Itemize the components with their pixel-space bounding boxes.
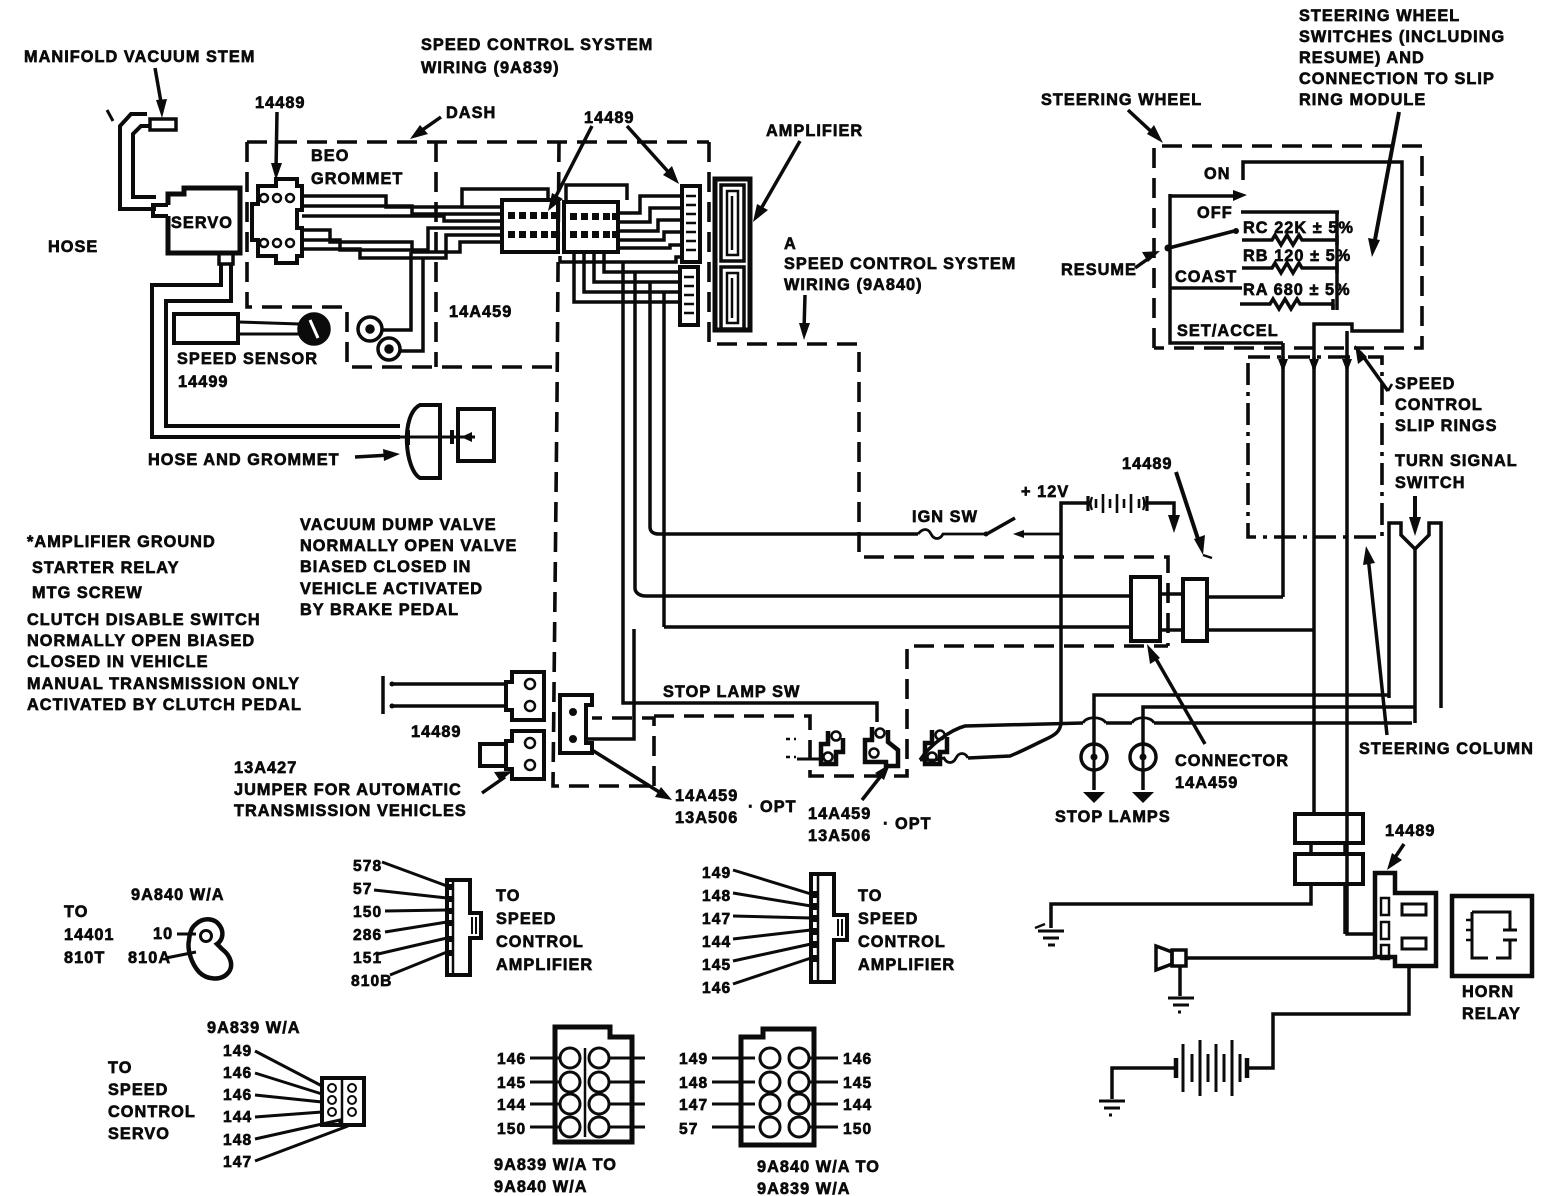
- svg-text:14489: 14489: [584, 109, 635, 127]
- servo vacuum port: [219, 253, 233, 264]
- svg-text:HORN: HORN: [1462, 983, 1514, 1001]
- svg-text:14A459: 14A459: [1175, 774, 1238, 792]
- bus wire y597 right: [1160, 592, 1183, 596]
- fuse to arrow: [1143, 503, 1180, 533]
- jumper loop: [480, 744, 506, 766]
- svg-text:ACTIVATED BY CLUTCH PEDAL: ACTIVATED BY CLUTCH PEDAL: [27, 696, 302, 714]
- stop lamp sw wire: [623, 700, 877, 722]
- opt small dashes: [786, 739, 796, 757]
- svg-text:57: 57: [353, 881, 372, 898]
- mid connector C: [560, 695, 592, 753]
- hose lower run: [152, 264, 400, 437]
- svg-text:10: 10: [153, 925, 173, 943]
- svg-text:9A839 W/A: 9A839 W/A: [207, 1019, 301, 1037]
- resistor RA: [1240, 299, 1333, 309]
- bus wire y594: [646, 594, 1131, 598]
- arrow dash label: [410, 117, 441, 139]
- wire B continue to stack: [1312, 628, 1316, 814]
- svg-text:TO: TO: [108, 1059, 132, 1077]
- svg-text:CONNECTOR: CONNECTOR: [1175, 752, 1289, 770]
- svg-text:145: 145: [843, 1075, 872, 1092]
- svg-text:CONTROL: CONTROL: [1395, 396, 1483, 414]
- svg-text:810T: 810T: [64, 949, 105, 967]
- 9A839 amp connector: [447, 880, 481, 975]
- svg-text:RING MODULE: RING MODULE: [1299, 91, 1426, 109]
- svg-text:AMPLIFIER: AMPLIFIER: [496, 956, 593, 974]
- squiggle to stop lamp sw: [920, 754, 968, 763]
- svg-text:SPEED: SPEED: [496, 910, 556, 928]
- horn conn pins: [1381, 898, 1389, 915]
- wires inline B to amp strip1: [618, 196, 682, 213]
- speed sensor plug: [299, 314, 329, 344]
- svg-text:STARTER RELAY: STARTER RELAY: [32, 559, 180, 577]
- stop lamps top wire: [1094, 695, 1389, 745]
- svg-text:CONNECTION TO SLIP: CONNECTION TO SLIP: [1299, 70, 1495, 88]
- battery feed wire: [1248, 966, 1409, 1068]
- svg-text:MANUAL TRANSMISSION ONLY: MANUAL TRANSMISSION ONLY: [27, 675, 300, 693]
- svg-text:STEERING COLUMN: STEERING COLUMN: [1359, 740, 1534, 758]
- amplifier slot2: [721, 267, 744, 329]
- ign sw feed wire: [659, 532, 918, 536]
- arrow manifold vacuum stem: [155, 68, 167, 118]
- bus wire y627: [664, 625, 1131, 629]
- svg-text:SPEED CONTROL SYSTEM: SPEED CONTROL SYSTEM: [421, 36, 653, 54]
- opt box 1: [592, 718, 654, 786]
- stop lamp 1: [1081, 744, 1107, 770]
- svg-text:*AMPLIFIER GROUND: *AMPLIFIER GROUND: [27, 533, 216, 551]
- arrow hose and grommet: [355, 449, 400, 461]
- dash panel boundary top: [247, 140, 709, 144]
- coast contact line: [1170, 286, 1242, 290]
- svg-text:CONTROL: CONTROL: [108, 1103, 196, 1121]
- set/accel stub: [1331, 304, 1335, 310]
- svg-text:146: 146: [702, 980, 731, 997]
- arrow steering wheel label: [1128, 110, 1163, 143]
- svg-text:14489: 14489: [1122, 455, 1173, 473]
- wire C down: [1345, 331, 1349, 537]
- svg-text:146: 146: [843, 1051, 872, 1068]
- steering wheel dash box: [1154, 146, 1422, 348]
- svg-text:SPEED: SPEED: [858, 910, 918, 928]
- ground sym battery: [1099, 1099, 1125, 1115]
- svg-text:149: 149: [679, 1051, 708, 1068]
- svg-text:STOP LAMP SW: STOP LAMP SW: [663, 683, 800, 701]
- svg-text:COAST: COAST: [1175, 268, 1237, 286]
- svg-text:AMPLIFIER: AMPLIFIER: [766, 122, 863, 140]
- svg-text:150: 150: [353, 904, 382, 921]
- resistor RB: [1242, 263, 1337, 273]
- svg-text:TURN SIGNAL: TURN SIGNAL: [1395, 452, 1518, 470]
- turn signal center post: [1413, 549, 1417, 723]
- svg-text:14A459: 14A459: [675, 787, 738, 805]
- svg-text:146: 146: [223, 1065, 252, 1082]
- svg-text:CONTROL: CONTROL: [858, 933, 946, 951]
- battery: [1176, 1040, 1247, 1096]
- svg-text:14A459: 14A459: [449, 303, 512, 321]
- stop lamp 2 wire: [1143, 707, 1415, 745]
- svg-text:149: 149: [702, 865, 731, 882]
- ign sw blade: [984, 518, 1016, 537]
- svg-text:STEERING WHEEL: STEERING WHEEL: [1041, 91, 1202, 109]
- inline connector 14A459 half B: [564, 202, 618, 252]
- svg-text:BY BRAKE PEDAL: BY BRAKE PEDAL: [300, 601, 459, 619]
- svg-text:14489: 14489: [411, 723, 462, 741]
- svg-text:VEHICLE ACTIVATED: VEHICLE ACTIVATED: [300, 580, 483, 598]
- speed sensor body: [174, 314, 238, 343]
- wire bundle BEO to inline connector: [302, 196, 502, 207]
- svg-text:14A459: 14A459: [808, 805, 871, 823]
- ON contact: [1170, 190, 1247, 201]
- 9A840 grommet pigtail: [177, 933, 196, 936]
- svg-text:9A840 W/A: 9A840 W/A: [131, 886, 225, 904]
- dash boundary lower vertical: [553, 142, 658, 786]
- svg-text:14489: 14489: [255, 94, 306, 112]
- hop over lamp1: [1083, 718, 1106, 723]
- svg-text:147: 147: [702, 911, 731, 928]
- svg-text:SWITCHES (INCLUDING: SWITCHES (INCLUDING: [1299, 28, 1505, 46]
- svg-text:STOP LAMPS: STOP LAMPS: [1055, 808, 1171, 826]
- vacuum dump valve plunger: [400, 436, 440, 439]
- 9A839 amp connector fan lines: [382, 862, 447, 886]
- svg-text:14489: 14489: [1385, 822, 1436, 840]
- svg-text:IGN SW: IGN SW: [912, 508, 978, 526]
- svg-text:HOSE AND GROMMET: HOSE AND GROMMET: [148, 451, 340, 469]
- grommet teardrop: [188, 919, 231, 978]
- arrow connector 14A459 label: [1147, 644, 1205, 744]
- stop lamp switch sym 2: [865, 727, 898, 766]
- stop lamp 1 lead: [1083, 770, 1105, 803]
- svg-text:CONTROL: CONTROL: [496, 933, 584, 951]
- svg-text:9A840 W/A TO: 9A840 W/A TO: [757, 1158, 880, 1176]
- svg-text:NORMALLY OPEN VALVE: NORMALLY OPEN VALVE: [300, 537, 517, 555]
- arrow slip rings label: [1355, 345, 1392, 391]
- wires inline B to amp strip2: [604, 252, 680, 272]
- svg-text:13A506: 13A506: [808, 827, 871, 845]
- switch ladder top bus: [1243, 162, 1402, 343]
- 9A840 amp connector: [811, 874, 847, 982]
- arrow opt1 label: [592, 750, 672, 800]
- svg-text:14401: 14401: [64, 926, 115, 944]
- svg-text:9A839 W/A TO: 9A839 W/A TO: [494, 1156, 617, 1174]
- svg-text:BIASED CLOSED IN: BIASED CLOSED IN: [300, 558, 472, 576]
- arrow 14489 to connector A: [548, 126, 592, 211]
- wire bundle top frame: [462, 189, 548, 207]
- svg-text:144: 144: [223, 1109, 252, 1126]
- svg-text:JUMPER FOR AUTOMATIC: JUMPER FOR AUTOMATIC: [234, 781, 462, 799]
- servo connector: [322, 1078, 364, 1125]
- svg-text:14499: 14499: [178, 373, 229, 391]
- svg-text:SPEED: SPEED: [108, 1081, 168, 1099]
- svg-text:RESUME) AND: RESUME) AND: [1299, 49, 1425, 67]
- mid to right conn leads: [712, 1058, 755, 1127]
- svg-text:ON: ON: [1204, 165, 1231, 183]
- amp connector strip2: [680, 267, 698, 325]
- left conn label leads: [530, 1058, 560, 1127]
- svg-text:144: 144: [497, 1097, 526, 1114]
- svg-text:STEERING WHEEL: STEERING WHEEL: [1299, 7, 1460, 25]
- slip rings dash box: [1248, 357, 1382, 537]
- column stack connector 1: [1295, 814, 1363, 843]
- svg-text:VACUUM DUMP VALVE: VACUUM DUMP VALVE: [300, 516, 497, 534]
- BEO pins row1: [260, 194, 268, 202]
- horn relay box: [1452, 896, 1532, 976]
- svg-text:A: A: [784, 235, 797, 253]
- arrow resume label: [1135, 251, 1160, 268]
- svg-text:MANIFOLD VACUUM STEM: MANIFOLD VACUUM STEM: [24, 48, 255, 66]
- arrow steering column label: [1363, 546, 1387, 735]
- hose and grommet shape: [407, 405, 440, 478]
- svg-text:WIRING (9A839): WIRING (9A839): [421, 59, 560, 77]
- clutch switch connector A: [506, 672, 544, 720]
- wire C continue in column: [1347, 537, 1375, 934]
- svg-text:TO: TO: [858, 887, 882, 905]
- wire drops from bundle to bus: [621, 262, 625, 700]
- mating connector left: [555, 1027, 632, 1142]
- svg-text:149: 149: [223, 1043, 252, 1060]
- BEO grommet connector: [252, 179, 302, 263]
- stack to horn conn wire: [1343, 884, 1347, 934]
- svg-text:SET/ACCEL: SET/ACCEL: [1177, 322, 1279, 340]
- inline connector 14A459 half A: [502, 200, 558, 252]
- svg-text:150: 150: [497, 1121, 526, 1138]
- inline connector pins A: [508, 212, 557, 238]
- stop lamp switch sym 1: [821, 731, 843, 764]
- horn symbol: [1156, 946, 1172, 970]
- wire from C: [586, 629, 634, 739]
- ladder left rail: [1170, 194, 1283, 343]
- column stack connector 2: [1295, 854, 1363, 884]
- svg-text:146: 146: [223, 1087, 252, 1104]
- svg-text:BEO: BEO: [311, 147, 349, 165]
- svg-text:RELAY: RELAY: [1462, 1005, 1521, 1023]
- svg-text:286: 286: [353, 927, 382, 944]
- arrow jumper label: [482, 771, 513, 793]
- svg-text:TO: TO: [64, 903, 88, 921]
- horn wire: [1186, 956, 1375, 960]
- 12V riser: [1061, 503, 1091, 534]
- arrow 14489 fuse label: [1176, 472, 1212, 558]
- svg-text:CLOSED IN VEHICLE: CLOSED IN VEHICLE: [27, 653, 209, 671]
- clutch terminal bar: [381, 676, 385, 714]
- speed sensor cable: [238, 322, 300, 324]
- BEO pins row2: [260, 239, 268, 247]
- arrow steering switches label: [1368, 112, 1399, 257]
- ladder right rail: [1335, 212, 1339, 310]
- svg-text:13A427: 13A427: [234, 759, 297, 777]
- stop lamp 2: [1130, 744, 1156, 770]
- svg-text:145: 145: [702, 957, 731, 974]
- svg-text:148: 148: [702, 888, 731, 905]
- svg-text:13A506: 13A506: [675, 809, 738, 827]
- left conn right leads: [609, 1058, 645, 1127]
- inline connector pair upper: [1131, 577, 1160, 641]
- inline connector pair lower: [1183, 579, 1207, 641]
- manifold vacuum stem: [150, 119, 176, 130]
- horn ground drop: [1178, 966, 1182, 996]
- ring terminal 1: [358, 317, 382, 341]
- dash panel boundary left: [247, 142, 558, 367]
- svg-text:147: 147: [223, 1154, 252, 1171]
- servo: [168, 188, 240, 253]
- svg-text:144: 144: [843, 1097, 872, 1114]
- svg-text:57: 57: [679, 1121, 698, 1138]
- svg-text:RB 120 ± 5%: RB 120 ± 5%: [1243, 247, 1351, 265]
- svg-text:148: 148: [679, 1075, 708, 1092]
- svg-text:SWITCH: SWITCH: [1395, 474, 1466, 492]
- stack link wires: [1311, 843, 1345, 854]
- mating connector right: [741, 1029, 814, 1145]
- svg-text:9A840 W/A: 9A840 W/A: [494, 1178, 588, 1196]
- svg-text:· OPT: · OPT: [748, 798, 797, 816]
- stop lamp 2 lead: [1132, 770, 1154, 803]
- svg-text:SPEED CONTROL SYSTEM: SPEED CONTROL SYSTEM: [784, 255, 1016, 273]
- wire B down: [1312, 343, 1316, 628]
- svg-text:CLUTCH DISABLE SWITCH: CLUTCH DISABLE SWITCH: [27, 611, 261, 629]
- svg-text:SPEED SENSOR: SPEED SENSOR: [177, 350, 318, 368]
- arrow 9A840 label: [799, 295, 810, 340]
- amplifier body: [715, 179, 750, 330]
- slip ring wire arrows: [1278, 357, 1288, 372]
- inline connector pins B: [570, 213, 618, 238]
- svg-text:MTG SCREW: MTG SCREW: [32, 584, 143, 602]
- svg-text:150: 150: [843, 1121, 872, 1138]
- svg-text:147: 147: [679, 1097, 708, 1114]
- clutch switch wires: [390, 682, 506, 686]
- svg-text:SERVO: SERVO: [108, 1125, 170, 1143]
- svg-text:HOSE: HOSE: [48, 238, 98, 256]
- amp connector strip1: [682, 186, 700, 262]
- stop lamp switch sym 3: [925, 730, 947, 764]
- 9A840 amp connector fan lines: [733, 870, 811, 894]
- grommet small box: [458, 409, 494, 461]
- svg-text:OFF: OFF: [1197, 204, 1233, 222]
- svg-text:810B: 810B: [351, 973, 392, 990]
- hose upper run: [133, 126, 156, 197]
- arrow 14489 left: [271, 112, 282, 180]
- svg-text:· OPT: · OPT: [883, 815, 932, 833]
- svg-text:DASH: DASH: [446, 104, 496, 122]
- svg-text:144: 144: [702, 934, 731, 951]
- turn signal switch body: [1389, 523, 1441, 708]
- grommet stud: [440, 436, 475, 439]
- resistor RC: [1242, 235, 1337, 245]
- resume blade: [1165, 228, 1240, 252]
- ign sw contact: [1013, 530, 1061, 538]
- wire drops to ring terminals: [382, 252, 411, 330]
- svg-text:AMPLIFIER: AMPLIFIER: [858, 956, 955, 974]
- svg-text:145: 145: [497, 1075, 526, 1092]
- svg-text:WIRING (9A840): WIRING (9A840): [784, 276, 923, 294]
- arrow 14489 horn label: [1387, 844, 1404, 870]
- svg-text:578: 578: [353, 858, 382, 875]
- svg-text:810A: 810A: [128, 949, 171, 967]
- arrow amplifier label: [753, 141, 800, 222]
- svg-text:9A839 W/A: 9A839 W/A: [757, 1180, 851, 1196]
- svg-text:SLIP RINGS: SLIP RINGS: [1395, 417, 1497, 435]
- amplifier dash box: [709, 142, 1168, 646]
- fusible link: [1088, 496, 1147, 511]
- crossing wire y723: [920, 723, 1412, 760]
- horn connector 14489: [1375, 873, 1436, 966]
- jumper connector B: [506, 731, 544, 779]
- svg-text:NORMALLY OPEN BIASED: NORMALLY OPEN BIASED: [27, 632, 255, 650]
- right conn label leads: [809, 1058, 838, 1127]
- svg-text:146: 146: [497, 1051, 526, 1068]
- svg-text:+ 12V: + 12V: [1021, 483, 1069, 501]
- svg-text:148: 148: [223, 1132, 252, 1149]
- svg-text:SPEED: SPEED: [1395, 375, 1455, 393]
- svg-text:TO: TO: [496, 887, 520, 905]
- 12V drop wire: [968, 534, 1061, 758]
- svg-text:TRANSMISSION VEHICLES: TRANSMISSION VEHICLES: [234, 802, 467, 820]
- ground sym left: [1035, 924, 1064, 945]
- wire A down from ladder: [1281, 343, 1285, 597]
- dash panel vertical mid: [434, 142, 438, 367]
- OFF contact line: [1241, 210, 1339, 214]
- ring terminal 2: [378, 338, 400, 360]
- arrow 14489 to amp strip: [627, 126, 679, 184]
- svg-text:GROMMET: GROMMET: [311, 170, 403, 188]
- battery left wire: [1112, 1068, 1177, 1099]
- servo fan lines: [255, 1051, 322, 1086]
- arrow opt2 label: [862, 764, 890, 800]
- amplifier slot1: [721, 185, 744, 261]
- arrow turn signal label: [1409, 496, 1421, 536]
- horn relay innards: [1472, 912, 1510, 958]
- ign sw squiggle: [918, 530, 985, 539]
- ground sym horn: [1168, 996, 1194, 1012]
- hop over lamp2: [1132, 718, 1154, 723]
- svg-text:SERVO: SERVO: [171, 214, 233, 232]
- svg-text:RESUME: RESUME: [1061, 261, 1137, 279]
